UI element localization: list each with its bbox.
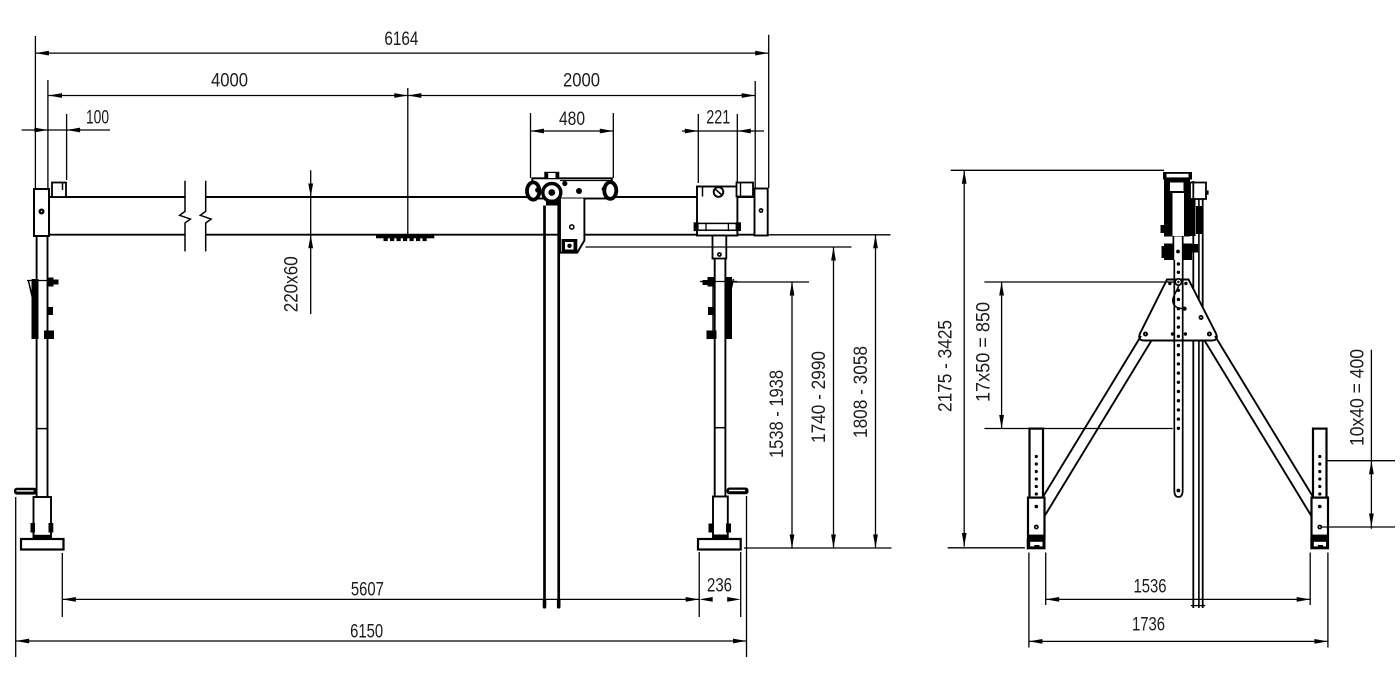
right foot — [1310, 539, 1329, 550]
svg-text:10x40 = 400: 10x40 = 400 — [1347, 349, 1368, 446]
right leg top tube — [713, 236, 727, 259]
dimension 480 extension lines — [530, 113, 532, 178]
dimension 236 — [699, 597, 713, 602]
dimension 1538-1938 — [791, 282, 793, 548]
left post upper — [1030, 429, 1044, 498]
extension line beam bottom right — [768, 234, 891, 236]
extension line gusset top — [984, 281, 1175, 283]
left leg tube — [36, 236, 38, 497]
right leg tube — [714, 259, 716, 497]
mast hoist body — [1164, 180, 1190, 237]
left end cap bolt — [39, 209, 45, 215]
extension line mast top — [951, 169, 1164, 171]
dimension 1736 extension lines — [1028, 553, 1030, 648]
svg-text:220x60: 220x60 — [281, 256, 302, 312]
dimension 5607 extension lines — [61, 553, 63, 617]
trolley pulley — [543, 184, 561, 202]
dimension 5607 — [62, 598, 699, 600]
svg-text:1538 - 1938: 1538 - 1938 — [767, 370, 788, 458]
dimension 6164 — [35, 52, 768, 54]
beam bottom edge — [49, 234, 185, 236]
right post upper — [1313, 429, 1327, 498]
trolley left roller — [527, 182, 539, 199]
right leg joint line — [715, 427, 726, 429]
left post lower — [1028, 498, 1045, 538]
beam top edge (girder 220x60) — [49, 196, 185, 198]
extension line strip bottom — [984, 428, 1172, 430]
left end cap plate — [34, 189, 49, 236]
left leg clamp lever — [32, 279, 39, 339]
svg-text:236: 236 — [707, 576, 732, 597]
svg-text:2000: 2000 — [563, 71, 600, 92]
right bracket clamp band — [697, 223, 737, 230]
right strut — [1215, 336, 1313, 498]
mast lower blocks — [1164, 244, 1173, 261]
svg-text:4000: 4000 — [211, 71, 248, 92]
right end cap bolt — [759, 208, 764, 213]
mast right box — [1190, 183, 1206, 200]
svg-text:5607: 5607 — [351, 580, 384, 601]
left leg outer tube — [34, 497, 52, 538]
dimension 2175-3425 — [963, 170, 965, 546]
dimension 220x60 — [310, 170, 312, 314]
trolley top plate — [532, 178, 612, 198]
dimension 10x40=400 — [1370, 350, 1372, 529]
left outer tube bolts — [31, 523, 36, 533]
right bracket notch — [702, 187, 704, 197]
dimension 221 — [682, 130, 764, 132]
svg-text:1536: 1536 — [1134, 577, 1167, 598]
svg-text:1740 - 2990: 1740 - 2990 — [809, 351, 830, 443]
dimension 480 — [531, 130, 614, 132]
hoist rope lines — [543, 206, 546, 609]
right leg top bolt — [717, 252, 722, 257]
dimension 6164 extension lines — [34, 36, 36, 189]
extension line hook level — [586, 246, 852, 248]
beam break symbol — [180, 181, 191, 252]
right leg handle pin — [727, 488, 749, 495]
trolley plate hole — [570, 225, 574, 229]
right top stop block — [737, 183, 754, 197]
extension line feet bottom left — [948, 547, 1025, 549]
dimension 6150 — [16, 640, 747, 642]
hoist rope upper block — [546, 200, 560, 206]
extension line clamp level — [734, 281, 809, 283]
gusset cable — [1173, 286, 1183, 308]
vertical rail — [1192, 181, 1194, 608]
extension line right post hole top — [1327, 460, 1396, 462]
svg-text:6150: 6150 — [350, 622, 383, 643]
dimension 1536 — [1046, 598, 1311, 600]
extension line right post hole bottom — [1321, 526, 1395, 528]
svg-text:100: 100 — [86, 108, 109, 129]
gusset plate — [1139, 280, 1217, 341]
left foot plate — [21, 539, 64, 550]
dimension 4000/2000 shared extension — [47, 80, 49, 190]
extension line foot level right — [744, 547, 892, 549]
dimension 1536 extension lines — [1045, 553, 1047, 606]
right bracket bolt — [714, 187, 724, 197]
dimension 1808-3058 — [875, 235, 877, 548]
dimension 221 extension lines — [697, 114, 699, 183]
dimension 236 extension line — [740, 552, 742, 617]
trolley hanger plate — [560, 199, 584, 253]
dimension 2000 — [408, 95, 755, 97]
svg-text:17x50 = 850: 17x50 = 850 — [973, 302, 994, 402]
right bracket box — [697, 187, 737, 236]
trolley rope clamp — [562, 239, 578, 253]
left strut — [1043, 336, 1141, 498]
dimension 100 extension line — [66, 114, 68, 180]
right end cap plate — [755, 189, 768, 236]
dimension 100 — [22, 129, 110, 131]
rail bottom tick — [1191, 605, 1205, 607]
dimension 17x50=850 — [1001, 282, 1003, 429]
right post lower — [1312, 498, 1329, 538]
left top stop block — [52, 183, 66, 198]
mast side tabs — [1161, 225, 1165, 233]
dimension 6150 extension lines — [15, 497, 17, 657]
dimension 4000 — [49, 95, 408, 97]
dimension 1736 — [1029, 640, 1328, 642]
trolley right roller — [604, 182, 616, 199]
right leg outer tube — [713, 497, 728, 538]
trolley bolts — [535, 187, 540, 192]
mast lower strip — [1172, 236, 1174, 260]
svg-text:1808 - 3058: 1808 - 3058 — [851, 346, 872, 438]
left leg handle pin — [14, 488, 37, 495]
gusset apex bolt — [1175, 279, 1181, 285]
dimension 1740-2990 — [833, 247, 835, 548]
svg-text:2175 - 3425: 2175 - 3425 — [935, 320, 956, 412]
left leg joint line — [37, 428, 48, 430]
svg-text:221: 221 — [706, 108, 730, 129]
svg-text:6164: 6164 — [384, 29, 418, 50]
right leg clamp lever — [726, 277, 733, 339]
gusset holes — [1143, 332, 1148, 337]
mast top cap — [1163, 172, 1192, 180]
svg-text:1736: 1736 — [1132, 615, 1165, 636]
trolley pulley top bracket — [544, 172, 559, 179]
right outer tube bolts — [709, 524, 714, 533]
rack teeth under beam — [376, 236, 434, 239]
left foot — [1027, 539, 1046, 550]
svg-text:480: 480 — [559, 109, 585, 130]
right foot plate — [698, 539, 741, 550]
centre hole strip — [1173, 260, 1175, 490]
